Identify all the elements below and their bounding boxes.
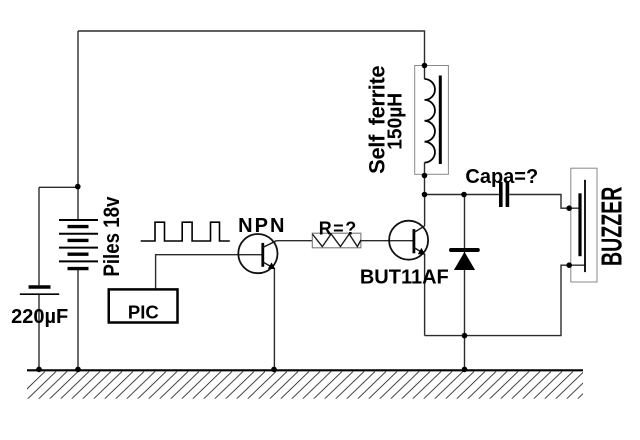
svg-text:R=?: R=? bbox=[319, 219, 358, 239]
svg-text:220µF: 220µF bbox=[11, 306, 68, 328]
svg-text:BUT11AF: BUT11AF bbox=[360, 267, 449, 289]
svg-text:Piles 18v: Piles 18v bbox=[101, 196, 125, 277]
svg-text:150µH: 150µH bbox=[384, 93, 406, 150]
svg-text:BUZZER: BUZZER bbox=[597, 187, 629, 266]
svg-text:NPN: NPN bbox=[238, 215, 286, 237]
svg-text:PIC: PIC bbox=[128, 302, 159, 323]
svg-text:Capa=?: Capa=? bbox=[465, 166, 538, 188]
